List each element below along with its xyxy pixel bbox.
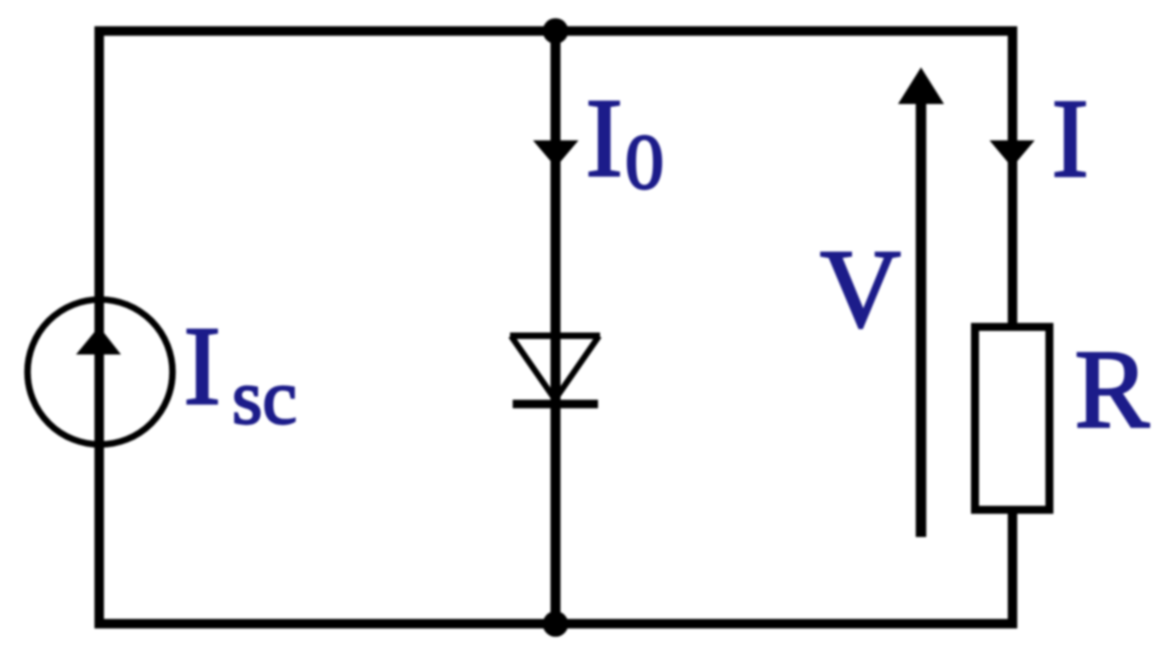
svg-text:0: 0 bbox=[625, 118, 664, 205]
svg-text:sc: sc bbox=[232, 353, 297, 440]
svg-text:R: R bbox=[1075, 328, 1150, 452]
svg-text:I: I bbox=[586, 77, 623, 201]
svg-text:I: I bbox=[1052, 77, 1089, 201]
svg-text:V: V bbox=[820, 228, 901, 352]
svg-text:I: I bbox=[184, 305, 221, 429]
